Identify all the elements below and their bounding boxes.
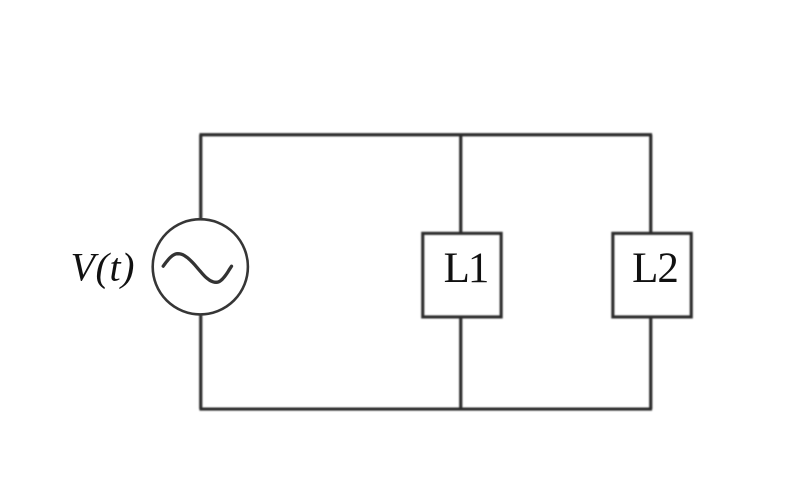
voltage source V1 sine symbol (163, 254, 231, 283)
svg-text:V(t): V(t) (71, 245, 136, 290)
inductor L2 box (613, 233, 691, 317)
inductor L1 box (423, 233, 501, 317)
svg-text:L2: L2 (632, 245, 678, 292)
wire L2 branch upper (649, 135, 652, 234)
wire L1 branch upper (459, 135, 462, 234)
wire bottom horizontal (199, 407, 652, 410)
voltage source V1 circle (153, 219, 248, 314)
svg-text:L1: L1 (444, 245, 488, 292)
wire left vertical lower (199, 315, 202, 409)
wire left vertical upper (199, 135, 202, 220)
wire top horizontal (199, 133, 652, 136)
wire L2 branch lower (649, 317, 652, 409)
wire L1 branch lower (459, 317, 462, 409)
